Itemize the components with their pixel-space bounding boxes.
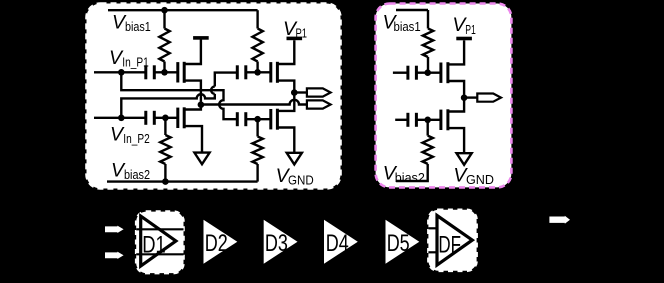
transistor M6: [439, 110, 442, 130]
wire M2 drain: [184, 105, 201, 110]
ground stage1: [194, 153, 209, 165]
resistor R6 lead: [427, 120, 429, 136]
wire C4 to gate node: [246, 118, 271, 120]
transistor M5: [439, 63, 442, 83]
svg-text:P1: P1: [296, 26, 308, 41]
wire cross-couple B: [121, 73, 237, 118]
resistor R4 lead lower: [256, 164, 258, 182]
supply bar stage1: [193, 36, 209, 40]
capacitor C6: [406, 113, 409, 127]
output port 1: [307, 88, 331, 96]
resistor R4: [252, 137, 262, 165]
svg-text:In_P2: In_P2: [123, 131, 150, 146]
wire cross-couple A: [121, 72, 237, 119]
buffer D5: [386, 220, 420, 264]
node on Vbias2 rail: [162, 178, 169, 185]
node gate2 bottom: [254, 116, 261, 123]
buffer D1 box: [136, 212, 183, 274]
wire D1 input 2: [136, 253, 183, 255]
wire out1 to port: [201, 100, 307, 105]
svg-text:bias1: bias1: [125, 19, 151, 34]
node gate1 top: [161, 69, 168, 76]
ground V_GND: [287, 153, 302, 165]
transistor M3: [269, 62, 272, 82]
svg-text:GND: GND: [288, 173, 314, 188]
svg-text:D4: D4: [326, 230, 349, 257]
svg-text:D3: D3: [265, 230, 288, 257]
capacitor C2: [144, 111, 147, 125]
wire M1 source: [184, 81, 201, 102]
wire input stub bottom: [395, 119, 408, 121]
wire C6 to gate: [416, 119, 441, 121]
wire M1 drain: [184, 40, 201, 65]
wire Vbias1 rail: [108, 9, 258, 11]
resistor R3 lead lower: [164, 164, 166, 182]
wire D1 input 1: [136, 228, 183, 230]
wire C5 to gate: [416, 71, 441, 73]
wire Vbias2 rail: [107, 180, 258, 182]
wire M3 drain: [277, 40, 294, 64]
buffer D1 triangle: [141, 216, 176, 266]
resistor R6: [423, 136, 433, 164]
wire M3 source: [277, 81, 294, 90]
capacitor C5: [406, 66, 409, 80]
resistor R4 lead: [256, 119, 258, 136]
wire V_In_P2 input: [94, 117, 146, 119]
buffer D3: [264, 220, 298, 264]
node gate1 bottom: [162, 115, 169, 122]
transistor M2: [176, 108, 179, 128]
svg-text:P1: P1: [465, 22, 476, 37]
resistor R3: [160, 135, 170, 164]
ground V_GND right: [457, 153, 472, 165]
wire M4 drain: [277, 93, 294, 111]
resistor R2 lead lower: [256, 62, 258, 73]
supply bar V_P1 right: [456, 37, 472, 41]
final output arrow: [549, 216, 570, 224]
transistor M1: [176, 62, 179, 82]
svg-text:bias2: bias2: [124, 167, 150, 182]
supply bar V_P1: [287, 37, 303, 41]
svg-text:bias1: bias1: [394, 19, 421, 34]
resistor R5: [423, 29, 433, 58]
left delay-cell box: [87, 4, 341, 189]
node out1: [198, 101, 205, 108]
svg-text:GND: GND: [466, 172, 494, 187]
wire C2 to gate node: [154, 117, 178, 119]
resistor R1 lead lower: [163, 62, 165, 73]
node out right: [461, 94, 468, 101]
wire C3 to gate node: [246, 71, 271, 73]
svg-text:DF: DF: [438, 231, 461, 258]
capacitor C1: [144, 65, 147, 79]
resistor R3 lead: [164, 118, 166, 135]
output port right: [477, 94, 501, 102]
wire input stub top: [393, 71, 408, 73]
buffer DF box: [428, 210, 476, 271]
resistor R5 leads: [427, 10, 429, 73]
buffer D4: [324, 220, 358, 264]
node gate2 top: [254, 69, 261, 76]
input arrow 2: [105, 252, 124, 259]
svg-text:D1: D1: [142, 232, 166, 259]
resistor R1 lead: [163, 10, 165, 28]
transistor M4: [269, 109, 272, 129]
wire DF input 1: [428, 227, 437, 229]
wire M4 source: [277, 128, 294, 153]
wire V_In_P1 input: [94, 71, 146, 73]
resistor R2: [252, 29, 262, 62]
resistor R1: [159, 29, 169, 62]
node In_P1: [118, 69, 125, 76]
buffer D2: [204, 220, 238, 264]
svg-text:D2: D2: [205, 230, 228, 257]
wire R6 to Vbias2: [396, 164, 428, 181]
wire M5 source: [448, 81, 464, 95]
output port 2: [307, 100, 331, 108]
wire out right to port: [464, 96, 477, 98]
node gate bottom right: [424, 117, 431, 124]
capacitor C3: [236, 65, 239, 79]
wire M2 source: [184, 126, 202, 153]
wire Vbias1 top: [396, 9, 428, 11]
hop of B over A: [211, 87, 215, 94]
input arrow 1: [105, 226, 124, 233]
resistor R2 lead: [256, 10, 258, 28]
node out2: [291, 89, 298, 96]
node In_P2: [118, 115, 125, 122]
wire C1 to gate node: [154, 71, 178, 73]
wire DF input 2: [428, 251, 437, 253]
capacitor C4: [236, 112, 239, 126]
wire out2 to port: [294, 91, 307, 93]
svg-text:bias2: bias2: [395, 170, 425, 185]
node on Vbias1 rail: [161, 7, 168, 14]
svg-text:D5: D5: [387, 230, 410, 257]
buffer DF triangle: [437, 216, 472, 266]
right half-circuit box: [376, 4, 512, 188]
wire M6 source: [448, 128, 464, 153]
wire M6 drain: [448, 98, 464, 112]
node gate top right: [424, 69, 431, 76]
wire M5 drain: [448, 40, 464, 64]
